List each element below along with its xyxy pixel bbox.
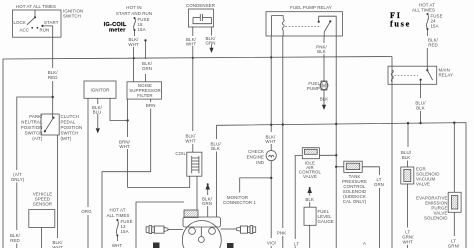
wire: NSF bottom left pin / BRN-WHT down and right to coil xyxy=(119,99,190,187)
wire: main bus (top border of harness box) xyxy=(3,57,392,248)
tank pressure control solenoid xyxy=(342,161,367,204)
main relay coil xyxy=(391,70,393,82)
svg-text:CHECK: CHECK xyxy=(248,149,264,154)
fuse F24 15A xyxy=(427,13,443,30)
svg-text:FILTER: FILTER xyxy=(137,93,152,98)
wire: EGR bottom lead LT GRN/WHT xyxy=(402,184,414,248)
svg-text:RELAY: RELAY xyxy=(439,73,454,78)
svg-text:BRN: BRN xyxy=(146,103,156,108)
svg-text:SWITCH: SWITCH xyxy=(61,131,79,136)
svg-text:SENSOR: SENSOR xyxy=(33,202,52,207)
svg-text:RUN: RUN xyxy=(40,28,50,33)
condenser C1 xyxy=(186,3,215,27)
main relay xyxy=(388,66,453,84)
fuel pump relay contact hook xyxy=(318,16,337,36)
distributor enclosure box corner xyxy=(136,202,184,248)
svg-text:15A: 15A xyxy=(121,229,129,234)
svg-text:HOT IN: HOT IN xyxy=(126,5,141,10)
wire: coil secondary to distributor tower xyxy=(196,176,198,210)
svg-text:15A: 15A xyxy=(431,24,439,29)
fuel pump motor M xyxy=(307,81,328,91)
fuel pump relay xyxy=(266,5,342,36)
svg-text:FUEL PUMP RELAY: FUEL PUMP RELAY xyxy=(290,5,332,10)
svg-text:ACC: ACC xyxy=(20,28,30,33)
svg-text:ALL TIMES: ALL TIMES xyxy=(412,8,435,13)
fuel pump relay coil xyxy=(272,16,285,36)
svg-text:RED: RED xyxy=(10,238,20,243)
svg-text:ALL TIMES: ALL TIMES xyxy=(106,213,129,218)
svg-text:POSITION: POSITION xyxy=(21,125,43,130)
svg-text:BLK: BLK xyxy=(416,106,425,111)
svg-text:WHT: WHT xyxy=(403,240,414,245)
svg-text:BLK: BLK xyxy=(317,49,326,54)
svg-text:SWITCH: SWITCH xyxy=(25,131,43,136)
wire: tank solenoid left lead xyxy=(336,166,344,168)
wire: ignitor right pin to junction with NSF xyxy=(110,98,129,121)
idle air control valve xyxy=(299,148,322,179)
svg-text:VIO/: VIO/ xyxy=(267,241,277,246)
svg-text:VALVE: VALVE xyxy=(416,182,430,187)
svg-text:CLUTCH: CLUTCH xyxy=(61,114,79,119)
svg-text:PNK: PNK xyxy=(277,231,286,236)
svg-text:CAL ONLY): CAL ONLY) xyxy=(343,199,367,204)
fuse F13 15A (bottom) xyxy=(116,219,132,237)
svg-text:GRN: GRN xyxy=(202,201,212,206)
svg-text:BLK: BLK xyxy=(320,97,329,102)
park/neutral position switch (A/T) / clutch pedal position switch (M/T) xyxy=(21,114,83,141)
svg-text:(A/T): (A/T) xyxy=(32,136,43,141)
svg-text:ORG: ORG xyxy=(81,209,92,214)
svg-text:PARK/: PARK/ xyxy=(29,114,43,119)
wire: relay contact feed down to BLU/BLK line xyxy=(335,36,337,248)
svg-text:START AND RUN: START AND RUN xyxy=(116,11,152,16)
wire: tank solenoid right lead LT GRN down xyxy=(362,167,384,248)
wire: BLK/RED from ignition switch START xyxy=(43,26,59,114)
svg-text:IND: IND xyxy=(256,160,264,165)
svg-text:SWITCH: SWITCH xyxy=(63,14,81,19)
svg-text:START: START xyxy=(44,20,59,25)
fuel pump relay switch blade xyxy=(286,20,332,36)
ground: ignitor BLK/BLU xyxy=(92,98,103,133)
svg-text:IGNITOR: IGNITOR xyxy=(91,88,110,93)
wire: BLK/GRN condenser lead with ground arrow xyxy=(205,27,216,53)
svg-text:POSITION: POSITION xyxy=(61,125,83,130)
svg-text:WHT: WHT xyxy=(186,42,197,47)
wire: BLK/WHT condenser lead to coil feed xyxy=(186,27,197,131)
spark plug right xyxy=(221,226,256,234)
svg-text:GAUGE: GAUGE xyxy=(318,219,334,224)
fuel level gauge xyxy=(304,187,334,248)
svg-text:15A: 15A xyxy=(138,27,146,32)
svg-text:GRN: GRN xyxy=(205,41,215,46)
distributor assembly xyxy=(153,210,234,248)
svg-text:meter: meter xyxy=(109,28,126,34)
ground: fuel pump BLK xyxy=(320,90,329,110)
svg-text:ONLY): ONLY) xyxy=(11,177,25,182)
svg-text:LOCK: LOCK xyxy=(14,20,26,25)
EGR solenoid vacuum valve xyxy=(401,122,440,187)
svg-text:VALVE: VALVE xyxy=(303,174,317,179)
arrow: BLK/GRN pickup lead (to distributor) xyxy=(202,183,213,217)
svg-text:GRN/: GRN/ xyxy=(448,244,460,248)
svg-text:BLK: BLK xyxy=(305,197,314,202)
main relay switch xyxy=(395,69,433,81)
wire: BLK/GRN splice to noise suppressor filter xyxy=(142,39,153,82)
svg-text:COIL: COIL xyxy=(175,151,186,156)
park/neutral switch blade xyxy=(44,114,55,132)
svg-text:BLU: BLU xyxy=(93,110,102,115)
svg-text:CONNECTOR 1: CONNECTOR 1 xyxy=(223,200,256,205)
svg-text:HOT AT ALL TIMES: HOT AT ALL TIMES xyxy=(16,4,56,9)
monitor connector 1 label xyxy=(223,195,256,205)
svg-text:A: A xyxy=(363,241,366,246)
svg-text:CONDENSER: CONDENSER xyxy=(186,3,215,8)
noise suppressor filter xyxy=(127,82,162,99)
svg-text:WHT: WHT xyxy=(128,42,139,47)
wire: BLU/BLK distribution line y=124.5 xyxy=(216,123,466,248)
wire: WHT below bottom fuse xyxy=(112,236,123,248)
wire: EVAP bottom lead LT GRN/ xyxy=(448,212,460,248)
wire: branch from BLK/RED to A/T only circuit xyxy=(10,96,54,248)
svg-text:WHT: WHT xyxy=(119,144,130,149)
wire: BLK/WHT from fuse 18 to noise suppressor filter xyxy=(128,31,139,82)
svg-text:fuse: fuse xyxy=(390,20,411,29)
wire: ignitor left pin ORG down to bottom xyxy=(81,98,92,248)
svg-text:RED: RED xyxy=(428,43,438,48)
wire: BLU/BLK from distribution line down to distributor xyxy=(211,125,222,217)
svg-text:ENGINE: ENGINE xyxy=(247,155,264,160)
svg-text:WHT: WHT xyxy=(112,243,123,248)
fuse F18 15A xyxy=(134,17,150,32)
check engine indicator lamp xyxy=(247,131,277,165)
wire: fuel pump relay coil pin 2 down (PNK at bottom) xyxy=(277,36,286,248)
wire: BLK/RED from FI fuse to main relay xyxy=(427,30,438,71)
svg-text:M: M xyxy=(322,84,326,90)
svg-text:BLK: BLK xyxy=(402,155,411,160)
svg-text:PEDAL: PEDAL xyxy=(61,120,76,125)
svg-text:LT: LT xyxy=(294,242,299,247)
svg-text:PUMP: PUMP xyxy=(307,86,320,91)
spark plug left xyxy=(146,226,183,234)
svg-text:RED: RED xyxy=(48,75,58,80)
wire: IAC left lead down to bottom LT xyxy=(294,156,302,248)
svg-text:NEUTRAL: NEUTRAL xyxy=(21,120,43,125)
svg-text:HOT AT: HOT AT xyxy=(109,208,125,213)
svg-text:GRN: GRN xyxy=(374,182,384,187)
svg-text:BLK: BLK xyxy=(211,146,220,151)
svg-text:SOLENOID: SOLENOID xyxy=(424,216,448,221)
ignition switch contacts and blade xyxy=(27,10,44,29)
wire: IAC right lead to feed wire xyxy=(319,154,336,156)
wire: bus drop at main relay left down to bottom xyxy=(391,57,393,248)
wire: switch output down to bottom BLK/ xyxy=(52,135,63,248)
wire: BLK/WHT coil feed label xyxy=(185,134,196,153)
wire: PNK/BLK from relay switch to fuel pump xyxy=(316,36,327,81)
vehicle speed sensor xyxy=(29,192,55,248)
ignition switch box xyxy=(13,9,84,38)
wire: NSF bottom right pin BRN down, left, down to bottom xyxy=(102,99,155,248)
svg-text:GRN: GRN xyxy=(142,66,152,71)
wire: fuel pump relay coil pin 1 down to BLU/BLK line (VIO at bottom) xyxy=(270,36,272,131)
wire: BLU/BLK from main relay switch down to distribution line xyxy=(415,80,426,125)
svg-text:WHT: WHT xyxy=(265,139,276,144)
evaporative emission purge valve solenoid xyxy=(416,122,461,221)
svg-text:WHT: WHT xyxy=(185,139,196,144)
ignition coil xyxy=(175,151,202,176)
wire: check engine to monitor connector branch xyxy=(240,161,277,248)
ignitor xyxy=(84,81,116,98)
svg-text:(M/T): (M/T) xyxy=(61,136,72,141)
